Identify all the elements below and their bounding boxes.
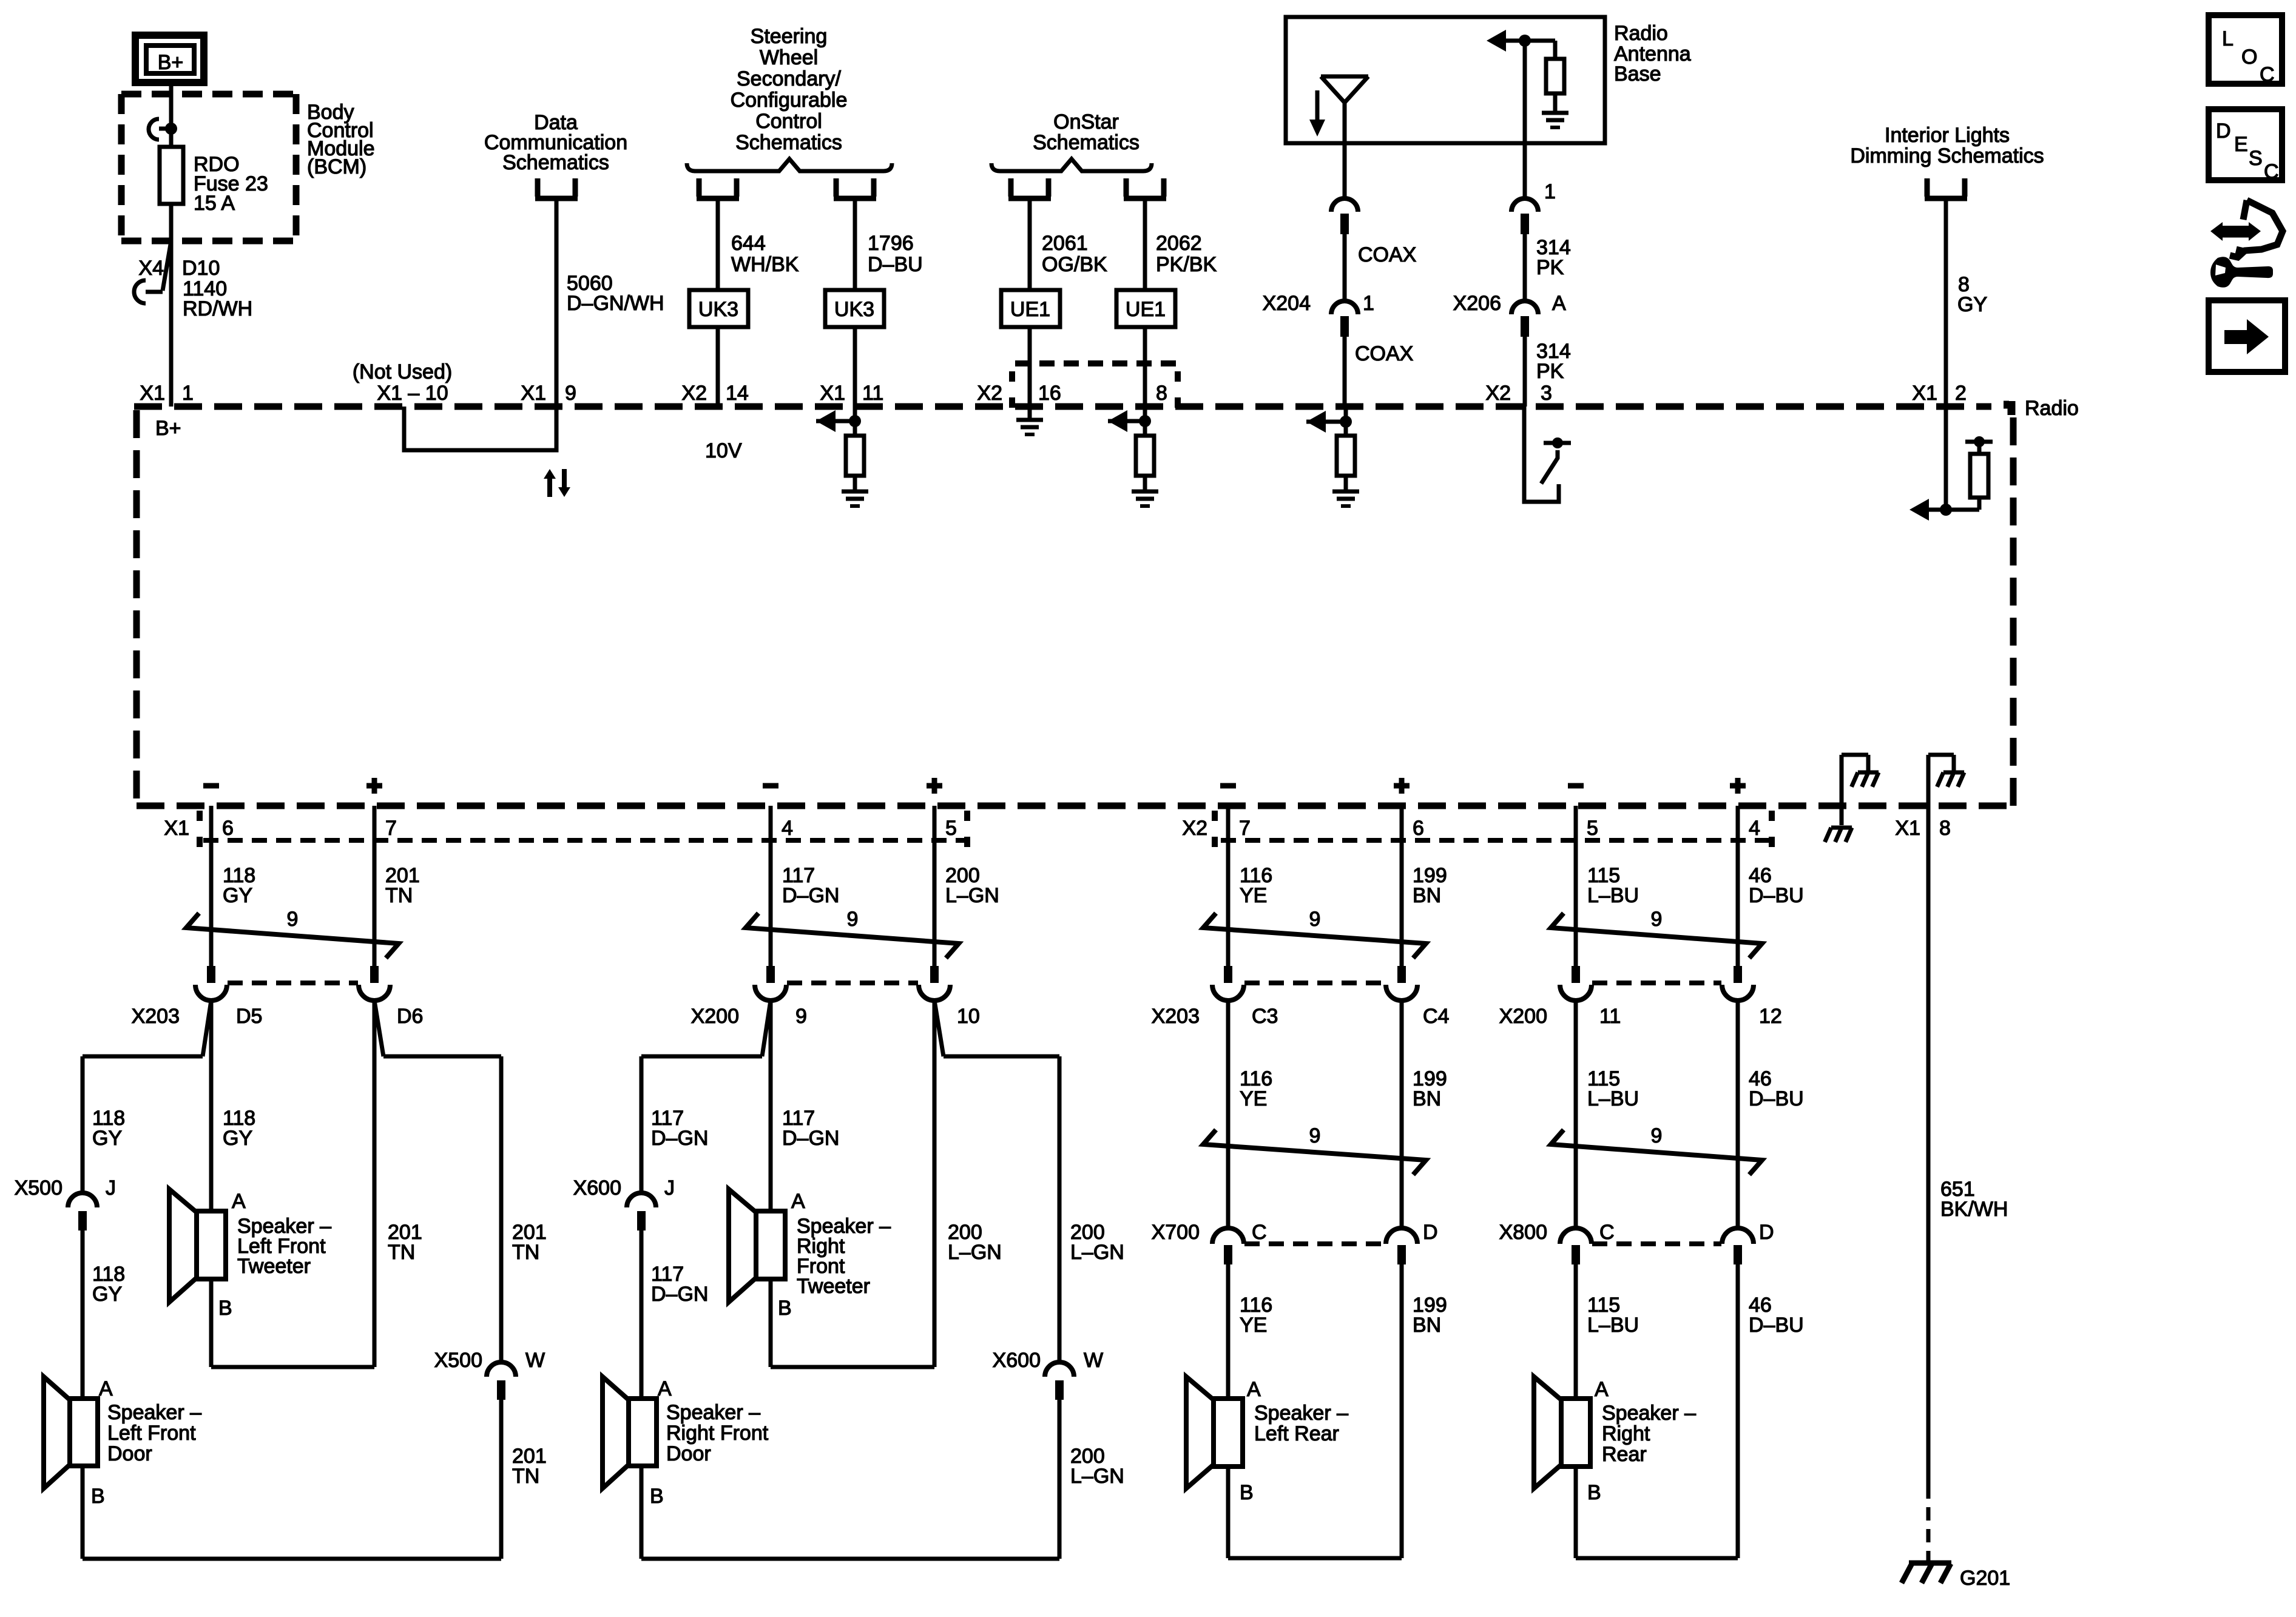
Radio Antenna Base box	[1286, 17, 1605, 143]
resistor at pin X1-2	[1965, 436, 1993, 498]
svg-text:L–GN: L–GN	[945, 884, 999, 907]
connector dashed line lower	[1592, 1241, 1721, 1246]
svg-text:7: 7	[385, 817, 397, 840]
connector dashed line	[228, 981, 358, 985]
svg-text:BK/WH: BK/WH	[1940, 1198, 2008, 1221]
radio pin X2 16 label	[977, 382, 1061, 405]
door speaker return wire	[501, 1400, 547, 1559]
svg-text:1796: 1796	[868, 232, 914, 255]
wire 115 L–BU to speaker	[1576, 1264, 1639, 1399]
radio internal case ground right pin X1-8	[1928, 755, 1964, 806]
svg-text:16: 16	[1038, 382, 1061, 405]
svg-text:10: 10	[957, 1005, 980, 1028]
svg-text:B: B	[650, 1485, 664, 1508]
connector X4 pin D10 crossing	[134, 241, 220, 303]
wire 201 TN from radio	[374, 806, 420, 966]
speaker - Left Front Tweeter tweeter	[169, 1189, 331, 1320]
twisted pair marker 9 lower	[1203, 1124, 1426, 1175]
wire 116 YE to speaker	[1228, 1264, 1272, 1399]
coax wire upper	[1345, 234, 1416, 301]
svg-text:C3: C3	[1252, 1005, 1278, 1028]
svg-text:GY: GY	[92, 1127, 122, 1150]
resistor at pin 8	[1136, 436, 1154, 476]
radio pin X1 9 label	[521, 382, 576, 405]
svg-text:X2: X2	[1485, 382, 1511, 405]
LOC legend box	[2209, 15, 2282, 86]
svg-text:X1: X1	[140, 382, 165, 405]
connector X500 pin W	[434, 1349, 545, 1400]
svg-text:D6: D6	[397, 1005, 423, 1028]
svg-text:COAX: COAX	[1355, 342, 1413, 365]
RPO box UE1 left	[1001, 290, 1060, 327]
svg-text:C: C	[1252, 1221, 1267, 1244]
svg-text:10V: 10V	[705, 439, 742, 462]
chassis ground below radio	[1825, 828, 1852, 842]
svg-text:Speaker –: Speaker –	[1602, 1402, 1696, 1425]
svg-text:X203: X203	[1152, 1005, 1200, 1028]
internal pull-up at pin 8	[1108, 407, 1151, 436]
svg-text:X2: X2	[681, 382, 707, 405]
twisted pair marker 9 upper	[1203, 908, 1426, 958]
svg-text:9: 9	[1309, 1124, 1321, 1147]
svg-text:Steering: Steering	[751, 25, 828, 48]
radio bottom connector X2 label	[1182, 811, 1215, 847]
svg-text:Tweeter: Tweeter	[797, 1275, 870, 1298]
connector dashed line	[787, 981, 918, 985]
svg-text:TN: TN	[512, 1241, 539, 1264]
svg-text:11: 11	[862, 382, 883, 405]
ground at pin X1-11	[842, 476, 868, 506]
svg-text:D5: D5	[236, 1005, 262, 1028]
svg-text:6: 6	[1413, 817, 1424, 840]
svg-text:D–GN: D–GN	[782, 884, 839, 907]
svg-text:9: 9	[1651, 1124, 1663, 1147]
svg-text:TN: TN	[385, 884, 413, 907]
speaker - Left Rear	[1186, 1377, 1348, 1504]
svg-text:BN: BN	[1413, 1314, 1441, 1337]
Radio box bottom edge	[137, 803, 2013, 809]
connector X800 pin D	[1722, 1221, 1774, 1264]
coax shield termination at radio	[1306, 407, 1352, 436]
brace OnStar	[991, 159, 1152, 171]
antenna power switch at pin X2-3	[1524, 407, 1571, 502]
serial data symbol	[544, 469, 570, 497]
svg-text:X2: X2	[977, 382, 1002, 405]
terminal UE1 right	[1124, 178, 1129, 197]
tweeter return wire	[771, 1001, 1002, 1367]
polarity mark plus	[1394, 778, 1410, 794]
terminal UK3 left	[697, 178, 702, 197]
connector X200 pin 10	[919, 966, 980, 1028]
svg-text:X800: X800	[1499, 1221, 1547, 1244]
svg-text:D–GN: D–GN	[651, 1283, 708, 1306]
svg-text:X1: X1	[1912, 382, 1937, 405]
svg-text:UE1: UE1	[1126, 298, 1166, 321]
svg-text:W: W	[525, 1349, 545, 1372]
wire 314 PK lower	[1525, 336, 1571, 407]
wire 314 PK upper	[1525, 234, 1571, 301]
svg-text:X204: X204	[1263, 292, 1311, 315]
Radio box right edge	[2010, 417, 2017, 806]
wire loop X1-10 to X1-9	[404, 407, 556, 450]
svg-text:1: 1	[1363, 292, 1374, 315]
speaker - Right Front Door	[603, 1377, 769, 1508]
svg-text:C4: C4	[1423, 1005, 1449, 1028]
twisted pair marker 9	[186, 908, 399, 958]
svg-text:GY: GY	[92, 1283, 122, 1306]
svg-text:D10: D10	[182, 257, 220, 280]
wire 8 GY	[1946, 200, 1987, 407]
svg-text:RD/WH: RD/WH	[183, 297, 252, 320]
svg-text:J: J	[664, 1176, 675, 1200]
wire 1796 D-BU	[855, 200, 923, 407]
svg-text:X4: X4	[138, 257, 164, 280]
resistor at coax input	[1337, 436, 1355, 476]
door speaker ground side wire	[641, 1466, 1059, 1559]
svg-text:X1: X1	[521, 382, 546, 405]
svg-text:Right: Right	[1602, 1422, 1650, 1445]
svg-text:Radio: Radio	[1614, 22, 1668, 45]
svg-text:UE1: UE1	[1010, 298, 1050, 321]
svg-text:L–GN: L–GN	[1070, 1241, 1124, 1264]
svg-text:W: W	[1084, 1349, 1103, 1372]
svg-text:E: E	[2234, 133, 2248, 156]
svg-text:6: 6	[222, 817, 234, 840]
svg-text:OG/BK: OG/BK	[1042, 253, 1107, 276]
wire 118 GY from radio	[211, 806, 255, 966]
speaker - Right Rear	[1534, 1377, 1696, 1504]
terminal UK3 right	[834, 178, 839, 197]
svg-text:D: D	[1423, 1221, 1438, 1244]
svg-text:Speaker –: Speaker –	[107, 1401, 201, 1424]
twisted pair marker 9 upper	[1551, 908, 1762, 958]
radio pin X1 1 label	[140, 382, 194, 405]
svg-text:L–BU: L–BU	[1587, 1087, 1639, 1110]
svg-text:Schematics: Schematics	[735, 131, 842, 154]
svg-text:BN: BN	[1413, 1087, 1441, 1110]
connector X203 pin C4	[1386, 966, 1449, 1028]
BCM label	[307, 101, 375, 178]
svg-text:A: A	[1552, 292, 1566, 315]
ground at coax input	[1332, 476, 1359, 506]
svg-text:GY: GY	[1957, 293, 1987, 316]
svg-text:A: A	[1595, 1378, 1609, 1401]
svg-text:A: A	[1247, 1378, 1261, 1401]
speaker - Left Front Door	[44, 1377, 201, 1508]
svg-text:B: B	[778, 1297, 792, 1320]
svg-text:1: 1	[182, 382, 194, 405]
svg-text:(Not Used): (Not Used)	[353, 360, 452, 383]
svg-text:D–BU: D–BU	[1749, 1314, 1804, 1337]
ground at pin X2-16	[1016, 407, 1043, 434]
radio pin X2 14 label	[681, 382, 748, 405]
twisted pair marker 9 lower	[1551, 1124, 1762, 1175]
svg-text:Wheel: Wheel	[760, 46, 818, 69]
svg-text:Speaker –: Speaker –	[666, 1401, 760, 1424]
svg-text:Left Front: Left Front	[107, 1422, 196, 1445]
svg-text:A: A	[99, 1377, 113, 1400]
wire 115 L–BU from radio	[1576, 806, 1639, 966]
radio bottom connector X1 label	[164, 811, 200, 847]
svg-text:X2: X2	[1182, 817, 1207, 840]
svg-text:3: 3	[1541, 382, 1552, 405]
svg-text:PK: PK	[1536, 256, 1564, 279]
svg-text:B: B	[1587, 1481, 1601, 1504]
speaker return wire bottom	[1576, 1467, 1738, 1558]
svg-text:D–GN: D–GN	[782, 1127, 839, 1150]
svg-text:Base: Base	[1614, 62, 1661, 86]
svg-text:B: B	[218, 1297, 232, 1320]
twisted pair marker 9	[746, 908, 959, 958]
branch to door speaker return	[934, 1001, 1124, 1362]
svg-text:BN: BN	[1413, 884, 1441, 907]
svg-text:TN: TN	[388, 1241, 415, 1264]
svg-text:D–GN/WH: D–GN/WH	[567, 292, 664, 315]
svg-text:L–GN: L–GN	[1070, 1465, 1124, 1488]
svg-text:5: 5	[945, 817, 957, 840]
wire 199 BN return	[1402, 1264, 1447, 1558]
ground at pin 8	[1132, 476, 1158, 506]
connector X204 pin 1	[1263, 292, 1374, 337]
signal down arrow	[1309, 90, 1325, 137]
wire 200 L–GN from radio	[934, 806, 999, 966]
wire 199 BN from radio	[1402, 806, 1447, 966]
connector X200 pin 11	[1499, 966, 1621, 1028]
svg-text:Schematics: Schematics	[1033, 131, 1140, 154]
wire 644 WH/BK	[718, 200, 799, 407]
connector X203 pin D6	[359, 966, 423, 1028]
svg-text:X1: X1	[164, 817, 189, 840]
wire B+ to fuse	[169, 83, 174, 147]
polarity mark plus	[1730, 778, 1746, 794]
wire fuse to radio pin X1-1	[169, 204, 174, 407]
svg-text:B+: B+	[158, 51, 184, 74]
wire 116 YE from radio	[1228, 806, 1272, 966]
wire 116 YE mid	[1228, 1001, 1272, 1228]
svg-text:A: A	[658, 1377, 672, 1400]
Radio box top edge	[134, 403, 1991, 410]
RPO box UE1 right	[1116, 290, 1175, 327]
antenna base connector left	[1331, 198, 1358, 212]
connector dashed line lower	[1244, 1241, 1385, 1246]
svg-text:WH/BK: WH/BK	[731, 253, 799, 276]
power feed B+ symbol	[135, 35, 204, 83]
svg-text:B: B	[1240, 1481, 1254, 1504]
pin number labels radio X1/X2 speaker outputs	[222, 817, 1760, 840]
svg-text:Control: Control	[755, 110, 822, 133]
svg-text:OnStar: OnStar	[1053, 110, 1119, 133]
svg-text:4: 4	[1749, 817, 1760, 840]
svg-text:Interior Lights: Interior Lights	[1885, 124, 2010, 147]
svg-text:Dimming Schematics: Dimming Schematics	[1850, 144, 2044, 167]
svg-text:UK3: UK3	[698, 298, 738, 321]
svg-text:Door: Door	[666, 1442, 711, 1465]
svg-text:L–BU: L–BU	[1587, 1314, 1639, 1337]
radio pin X1 2 label	[1912, 382, 1967, 405]
svg-text:S: S	[2249, 147, 2263, 170]
Radio box left edge	[133, 410, 140, 806]
wire 2061 OG/BK	[1030, 200, 1107, 407]
branch to door speaker return	[374, 1001, 547, 1362]
RPO box UK3 right	[825, 290, 884, 327]
fuse RDO Fuse 23 15 A	[160, 147, 183, 204]
polarity mark plus	[366, 778, 382, 794]
svg-text:14: 14	[726, 382, 749, 405]
svg-text:COAX: COAX	[1358, 243, 1416, 266]
svg-text:X200: X200	[1499, 1005, 1547, 1028]
svg-text:4: 4	[782, 817, 793, 840]
svg-text:GY: GY	[223, 884, 252, 907]
polarity mark minus	[203, 783, 219, 789]
svg-text:J: J	[106, 1176, 116, 1200]
resistor in antenna base	[1546, 59, 1564, 93]
svg-text:X1: X1	[820, 382, 845, 405]
svg-text:D–BU: D–BU	[1749, 1087, 1804, 1110]
radio pin X1 11 label	[820, 382, 883, 405]
svg-text:TN: TN	[512, 1465, 539, 1488]
svg-text:X600: X600	[993, 1349, 1041, 1372]
svg-text:PK/BK: PK/BK	[1156, 253, 1217, 276]
svg-text:D–GN: D–GN	[651, 1127, 708, 1150]
svg-text:9: 9	[795, 1005, 807, 1028]
resistor at pin X1-11	[846, 436, 864, 476]
wire 2062 PK/BK	[1145, 200, 1217, 407]
wire antenna output pin 1	[1525, 41, 1556, 203]
svg-text:C: C	[2264, 160, 2279, 183]
svg-text:8: 8	[1939, 817, 1951, 840]
svg-text:X203: X203	[132, 1005, 180, 1028]
svg-text:9: 9	[1651, 908, 1663, 931]
svg-text:X700: X700	[1152, 1221, 1200, 1244]
svg-text:L: L	[2222, 27, 2234, 50]
ground G201	[1902, 1552, 2010, 1590]
door speaker ground side wire	[83, 1466, 501, 1559]
svg-text:X206: X206	[1453, 292, 1501, 315]
(Not Used) pin X1-10	[353, 360, 452, 405]
Radio Antenna Base label	[1614, 22, 1691, 86]
wire 115 L–BU mid	[1576, 1001, 1639, 1228]
connector X600 pin W	[993, 1349, 1104, 1400]
Body Control Module (BCM) dashed box	[121, 91, 296, 98]
ground in antenna base	[1542, 93, 1568, 127]
svg-text:5: 5	[1587, 817, 1598, 840]
svg-text:YE: YE	[1240, 1087, 1267, 1110]
connector X203 pin D5	[132, 966, 263, 1028]
svg-text:Radio: Radio	[2025, 397, 2079, 420]
wire 651 dashed section	[1926, 1485, 1931, 1553]
svg-text:9: 9	[1309, 908, 1321, 931]
clip pigtail in BCM	[149, 119, 177, 140]
svg-text:9: 9	[847, 908, 859, 931]
svg-text:2062: 2062	[1156, 232, 1202, 255]
svg-text:Speaker –: Speaker –	[1254, 1402, 1348, 1425]
wire 118 GY to tweeter	[211, 1001, 255, 1211]
svg-text:YE: YE	[1240, 884, 1267, 907]
svg-text:2: 2	[1955, 382, 1967, 405]
connector body dashed line X2	[1221, 838, 1772, 843]
svg-text:15 A: 15 A	[194, 192, 235, 215]
radio bottom connector X1 pin 8 label	[1895, 817, 1951, 840]
wire 651 BK/WH	[1928, 806, 2008, 1485]
svg-text:O: O	[2241, 46, 2257, 69]
svg-text:(BCM): (BCM)	[307, 155, 366, 178]
svg-text:9: 9	[287, 908, 299, 931]
svg-text:YE: YE	[1240, 1314, 1267, 1337]
svg-text:PK: PK	[1536, 360, 1564, 383]
svg-text:8: 8	[1156, 382, 1167, 405]
tweeter return wire	[211, 1001, 422, 1367]
speaker - Right Front Tweeter tweeter	[729, 1189, 891, 1320]
svg-text:Secondary/: Secondary/	[737, 67, 842, 90]
brace steering wheel	[687, 159, 892, 171]
svg-text:X1: X1	[1895, 817, 1920, 840]
connector X700 pin D	[1386, 1221, 1438, 1264]
wire 117 D–GN from radio	[771, 806, 839, 966]
svg-text:Rear: Rear	[1602, 1443, 1647, 1466]
svg-text:B: B	[91, 1485, 105, 1508]
internal pull-up at pin X1-11	[816, 407, 861, 436]
connector X206 pin A	[1453, 292, 1566, 337]
svg-text:D: D	[2216, 120, 2231, 143]
svg-text:9: 9	[565, 382, 576, 405]
wire 1140 RD/WH label	[183, 277, 252, 320]
service icon hand with arrow and wrench	[2210, 200, 2283, 288]
svg-text:B+: B+	[155, 417, 181, 440]
svg-text:C: C	[1599, 1221, 1615, 1244]
svg-text:D–BU: D–BU	[868, 253, 923, 276]
RPO box UK3 left	[689, 290, 748, 327]
connector dashed line upper	[1592, 981, 1721, 985]
wire 46 D–BU from radio	[1738, 806, 1804, 966]
antenna symbol	[1321, 76, 1368, 198]
svg-text:GY: GY	[223, 1127, 252, 1150]
svg-text:Door: Door	[107, 1442, 152, 1465]
connector X200 pin 9	[691, 966, 807, 1028]
branch to door speaker	[641, 1001, 771, 1192]
wire 117 D–GN to door speaker	[641, 1230, 708, 1399]
door speaker return wire	[1059, 1400, 1124, 1559]
Interior Lights Dimming Schematics reference	[1850, 124, 2044, 167]
next page arrow legend box	[2209, 300, 2285, 372]
connector X800 pin C	[1499, 1221, 1615, 1264]
svg-text:2061: 2061	[1042, 232, 1088, 255]
svg-text:Left Rear: Left Rear	[1254, 1422, 1339, 1445]
Steering Wheel Secondary/Configurable Control Schematics reference	[731, 25, 848, 154]
svg-text:X500: X500	[434, 1349, 482, 1372]
OnStar Schematics reference	[1033, 110, 1140, 154]
svg-text:1: 1	[1544, 180, 1556, 203]
Radio label	[2004, 397, 2079, 420]
connector position dots	[967, 811, 1772, 847]
svg-text:D–BU: D–BU	[1749, 884, 1804, 907]
connector X500 pin J	[15, 1176, 116, 1230]
wire 46 D–BU return	[1738, 1264, 1804, 1558]
fuse label	[194, 153, 268, 215]
terminal to data communication	[535, 178, 578, 198]
connector X200 pin 12	[1722, 966, 1782, 1028]
OnStar connector X2 raised dashed outline	[1012, 363, 1178, 408]
connector X600 pin J	[573, 1176, 675, 1230]
svg-text:L–GN: L–GN	[948, 1241, 1002, 1264]
radio internal case ground left	[1842, 755, 1879, 825]
svg-text:X1 – 10: X1 – 10	[377, 382, 448, 405]
polarity mark plus	[927, 778, 942, 794]
svg-text:C: C	[2260, 63, 2275, 86]
radio pin X2 3 label	[1485, 382, 1552, 405]
terminal UE1 left	[1008, 178, 1014, 197]
DESC legend box	[2209, 109, 2282, 183]
polarity mark minus	[1220, 783, 1236, 789]
